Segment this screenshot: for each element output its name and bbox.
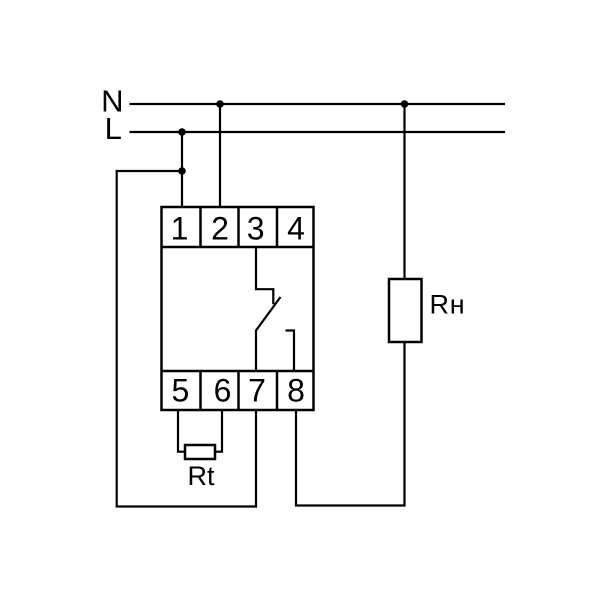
svg-text:8: 8	[287, 373, 305, 409]
svg-text:2: 2	[211, 210, 229, 246]
svg-text:7: 7	[248, 373, 266, 409]
svg-text:5: 5	[172, 373, 190, 409]
svg-text:Rн: Rн	[430, 290, 466, 320]
svg-text:Rt: Rt	[188, 461, 215, 491]
svg-text:6: 6	[214, 373, 232, 409]
svg-text:4: 4	[287, 210, 305, 246]
svg-text:1: 1	[171, 210, 189, 246]
svg-text:3: 3	[247, 210, 265, 246]
svg-text:L: L	[105, 111, 122, 146]
